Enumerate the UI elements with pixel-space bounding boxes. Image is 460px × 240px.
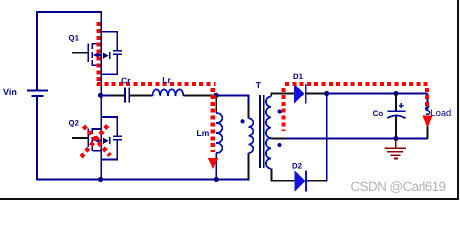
Q1 gate bar (87, 44, 89, 63)
node D2 branch top (324, 91, 329, 96)
wire primary bottom (248, 153, 250, 179)
wire midpoint to Cr (navy then black) (101, 95, 111, 97)
wire top rail left loop (36, 11, 102, 13)
svg-text:T: T (256, 80, 262, 90)
wire load bottom (427, 117, 429, 139)
red dotted vertical load (425, 88, 429, 108)
svg-text:Q2: Q2 (69, 118, 80, 127)
Q2 drain lead (93, 128, 101, 130)
node half-bridge midpoint (98, 93, 103, 98)
wire D1 cathode to node (307, 93, 325, 95)
Q1 channel dashes (91, 43, 93, 49)
secondary phase dot upper (278, 110, 282, 114)
wire bottom rail primary (36, 179, 250, 181)
Q2 source lead (93, 150, 101, 152)
battery Vin long plate (27, 90, 48, 92)
transformer core (259, 95, 261, 168)
diode D1 (294, 84, 304, 103)
battery Vin short plate (32, 95, 44, 97)
svg-text:Lm: Lm (197, 128, 210, 138)
Q1 snubber loop bottom (101, 74, 119, 76)
inductor Lm stub (215, 96, 217, 113)
ground bar 4 (394, 158, 398, 160)
Q1 gate lead (72, 52, 88, 54)
wire D2 branch vertical (326, 94, 328, 182)
wire half-bridge vertical (100, 11, 102, 180)
Q2 capacitor branch (116, 117, 118, 136)
transformer secondary coil lower (266, 138, 271, 169)
Q1 capacitor plates (113, 50, 122, 52)
inductor Lm coil (216, 113, 222, 153)
transformer primary coil (249, 118, 254, 153)
Q2 channel dashes (91, 128, 93, 134)
Q1 body diode (103, 53, 109, 59)
wire node to primary corner (216, 95, 249, 97)
transistor Q2 (69, 116, 123, 160)
load squiggle (426, 107, 430, 115)
svg-text:Co: Co (373, 109, 384, 118)
wire center tap (271, 138, 285, 140)
node Co bottom (393, 136, 398, 141)
capacitor Cr plates (124, 88, 126, 103)
Q2 capacitor plates (113, 135, 122, 137)
svg-text:D1: D1 (293, 72, 304, 81)
wire load branch vertical (427, 94, 429, 110)
capacitor Co lead top (395, 94, 397, 111)
red dotted vertical secondary (282, 88, 286, 131)
wire secondary top (270, 93, 272, 97)
wire Lr to node (183, 95, 214, 97)
wire left rail upper (36, 11, 38, 90)
red dotted horizontal secondary (285, 82, 429, 86)
Q2 body diode (103, 138, 109, 144)
capacitor Co plus sign (399, 105, 404, 107)
svg-text:Lr: Lr (162, 75, 171, 85)
transistor Q1 (69, 31, 123, 75)
wire top output rail (325, 93, 428, 95)
red X over Q2 stroke 1 (84, 126, 111, 156)
Q2 bulk arrow (93, 138, 99, 143)
Q1 snubber loop top (101, 31, 119, 33)
border bottom (0, 198, 459, 200)
border right (457, 0, 459, 200)
svg-text:Load: Load (430, 107, 451, 118)
inductor Lr (153, 89, 184, 95)
capacitor Co curved plate (387, 116, 405, 119)
red X over Q2 stroke 2 (80, 126, 108, 160)
Q1 source lead (93, 65, 101, 67)
wire primary top corner down (248, 95, 250, 105)
Q2 snubber loop top (101, 116, 119, 118)
red dotted horizontal primary (97, 82, 216, 86)
svg-text:Cr: Cr (121, 76, 131, 86)
Q1 capacitor branch (116, 32, 118, 51)
node Co top (393, 91, 398, 96)
primary phase dot (241, 119, 245, 123)
red arrow Lm (208, 158, 218, 169)
secondary phase dot lower (278, 143, 282, 147)
wire Lm bottom (215, 153, 217, 179)
red arrow load (422, 116, 432, 128)
node Lm top (214, 93, 219, 98)
wire Cr to Lr (130, 95, 152, 97)
Q1 bulk arrow (93, 52, 99, 57)
wire secondary bottom to D2 (271, 180, 295, 182)
red dotted vertical through Q1 (96, 22, 100, 86)
Q2 gate lead (72, 137, 88, 139)
node Q2 source on bottom rail (98, 177, 103, 182)
red dotted vertical through Lm (211, 88, 215, 152)
svg-text:CSDN @Carl619: CSDN @Carl619 (351, 179, 446, 194)
Q2 gate bar (87, 129, 89, 148)
ground stem (395, 139, 397, 148)
svg-text:Q1: Q1 (69, 33, 80, 42)
transformer secondary coil upper (266, 97, 271, 139)
wire D2 cathode (307, 180, 328, 182)
ground bar 3 (390, 154, 400, 156)
capacitor Co lead bottom (395, 117, 397, 139)
wire left rail lower (36, 97, 38, 180)
wire secondary bottom stub (271, 169, 273, 181)
node Lm bottom (214, 177, 219, 182)
svg-text:D2: D2 (292, 162, 303, 171)
diode D2 (295, 171, 306, 192)
ground bar 2 (387, 151, 403, 153)
capacitor Co top plate (388, 110, 406, 112)
ground bar 1 (385, 147, 407, 149)
Q1 drain lead (93, 43, 101, 45)
Q2 snubber loop bottom (101, 159, 119, 161)
svg-text:Vin: Vin (3, 87, 17, 97)
